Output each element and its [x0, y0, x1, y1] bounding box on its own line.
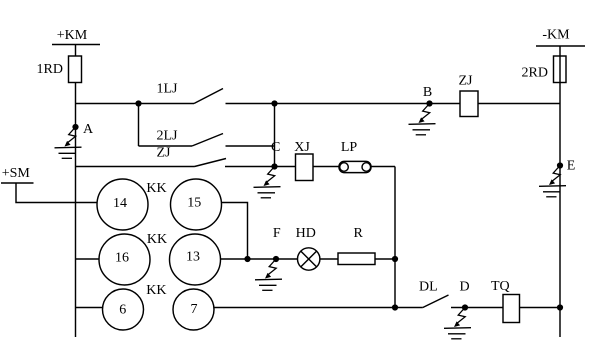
wire: 1LJ row left segment: [76, 103, 195, 105]
svg-text:7: 7: [191, 302, 198, 317]
wire: ZJ contact row left segment: [76, 166, 195, 168]
svg-text:HD: HD: [296, 226, 316, 241]
wire: +SM drop to row 1: [16, 183, 98, 203]
svg-text:14: 14: [113, 196, 127, 211]
test point at A: [55, 127, 82, 158]
junction node (top of C drop): [271, 100, 277, 106]
svg-text:+SM: +SM: [2, 166, 31, 181]
wire: 2LJ branch vertical: [138, 104, 140, 147]
switch contact KK 15: [171, 179, 222, 230]
svg-text:-KM: -KM: [542, 28, 570, 43]
switch contact KK 16: [99, 234, 150, 285]
wire: 2LJ row left segment: [139, 145, 193, 147]
bus +SM bar: [1, 182, 34, 184]
svg-text:+KM: +KM: [57, 28, 88, 43]
svg-text:KK: KK: [146, 181, 166, 196]
svg-text:R: R: [354, 226, 364, 241]
wire: row 3 right segment: [451, 307, 560, 309]
bus +KM bar: [52, 44, 100, 46]
svg-text:TQ: TQ: [491, 279, 510, 294]
svg-text:D: D: [459, 279, 469, 294]
svg-text:2LJ: 2LJ: [157, 129, 179, 144]
wire: from 15 down to row 2: [221, 203, 247, 260]
test point at D: [444, 308, 471, 339]
node A: [72, 122, 94, 137]
node F: [273, 226, 281, 262]
junction node (TQ to -KM rail): [557, 304, 563, 310]
svg-text:XJ: XJ: [294, 140, 310, 155]
lamp HD: [296, 226, 320, 270]
bus -KM bar: [536, 45, 585, 47]
wire: 2LJ row right segment: [226, 145, 275, 147]
wire: left +KM rail vertical: [75, 45, 77, 338]
svg-text:KK: KK: [147, 232, 167, 247]
wire: row 2 right segment: [221, 258, 396, 260]
wire: row 2 left segment: [76, 258, 100, 260]
svg-text:E: E: [567, 159, 576, 174]
svg-text:C: C: [271, 140, 280, 155]
contact ZJ: [157, 146, 227, 167]
contact DL: [419, 279, 449, 307]
svg-text:A: A: [83, 122, 94, 137]
junction node (R to bus): [392, 256, 398, 262]
wire: middle vertical bus: [394, 167, 396, 308]
node E: [557, 159, 575, 174]
node D: [459, 279, 469, 310]
svg-text:13: 13: [186, 249, 200, 264]
coil TQ: [491, 279, 520, 323]
wire: ZJ row right segment: [225, 166, 395, 168]
switch contact KK 7: [173, 289, 214, 330]
wire: vertical drop to node C: [274, 104, 276, 167]
switch contact KK 14: [97, 179, 148, 230]
test point at B: [409, 104, 436, 135]
wire: row 3 middle segment: [214, 307, 423, 309]
contact 2LJ: [157, 129, 224, 147]
svg-text:1LJ: 1LJ: [157, 82, 179, 97]
switch contact KK 6: [103, 289, 144, 330]
junction node (bus to row 3): [392, 304, 398, 310]
test point at F: [255, 259, 282, 290]
svg-text:DL: DL: [419, 279, 438, 294]
svg-text:16: 16: [115, 250, 129, 265]
svg-text:B: B: [423, 85, 432, 100]
fuse 2RD: [522, 56, 566, 83]
junction node (15/13 tie): [244, 256, 250, 262]
wire: row 3 left segment: [76, 307, 103, 309]
test point at E: [539, 166, 566, 197]
switch contact KK 13: [170, 234, 221, 285]
test point at C: [254, 167, 281, 198]
fuse 1RD: [37, 56, 82, 83]
svg-text:ZJ: ZJ: [157, 146, 172, 161]
svg-text:6: 6: [119, 303, 126, 318]
wire: 1LJ row right segment to -KM rail: [226, 103, 561, 105]
resistor R: [338, 226, 375, 264]
relay coil ZJ: [459, 74, 479, 117]
contact 1LJ: [157, 82, 224, 104]
wire: right -KM rail vertical: [559, 46, 561, 337]
svg-text:15: 15: [187, 195, 201, 210]
node B: [423, 85, 433, 107]
svg-text:1RD: 1RD: [37, 62, 63, 77]
junction node (1LJ/2LJ tap): [135, 100, 141, 106]
node C: [271, 140, 280, 170]
svg-text:ZJ: ZJ: [459, 74, 474, 89]
svg-text:2RD: 2RD: [522, 66, 548, 81]
svg-text:F: F: [273, 226, 281, 241]
link LP: [339, 140, 371, 173]
relay coil XJ: [294, 140, 313, 181]
svg-text:LP: LP: [341, 140, 358, 155]
svg-text:KK: KK: [146, 283, 166, 298]
